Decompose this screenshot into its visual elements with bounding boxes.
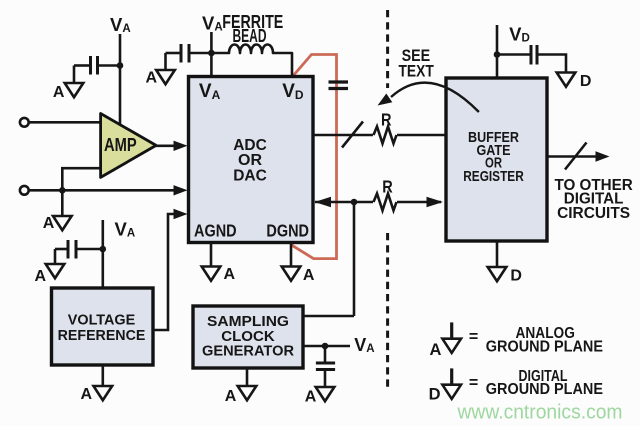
svg-text:A: A [305, 389, 317, 406]
svg-text:A: A [303, 267, 315, 284]
svg-text:A: A [224, 266, 236, 283]
svg-text:AMP: AMP [104, 135, 137, 155]
svg-text:A: A [146, 70, 158, 87]
svg-text:GENERATOR: GENERATOR [202, 344, 295, 360]
svg-text:A: A [225, 388, 237, 405]
svg-text:REFERENCE: REFERENCE [58, 328, 146, 344]
svg-text:D: D [580, 73, 592, 90]
svg-text:TEXT: TEXT [399, 62, 435, 81]
svg-text:A: A [81, 386, 93, 403]
svg-text:A: A [43, 215, 55, 232]
svg-text:GROUND PLANE: GROUND PLANE [486, 381, 603, 398]
svg-text:R: R [382, 177, 393, 197]
svg-text:GROUND PLANE: GROUND PLANE [486, 339, 603, 356]
svg-text:CLOCK: CLOCK [221, 329, 275, 345]
svg-text:AGND: AGND [194, 221, 237, 241]
svg-text:OR: OR [238, 152, 262, 169]
svg-text:REGISTER: REGISTER [463, 168, 524, 185]
svg-text:A: A [430, 341, 442, 359]
svg-text:VOLTAGE: VOLTAGE [68, 313, 136, 329]
svg-text:BEAD: BEAD [233, 26, 267, 46]
svg-text:D: D [510, 268, 522, 285]
svg-text:A: A [35, 268, 47, 285]
svg-text:CIRCUITS: CIRCUITS [557, 205, 630, 222]
svg-text:A: A [53, 84, 65, 101]
svg-text:=: = [469, 329, 478, 346]
svg-text:www.cntronics.com: www.cntronics.com [457, 402, 623, 424]
svg-text:DGND: DGND [266, 221, 309, 241]
svg-text:SAMPLING: SAMPLING [207, 314, 289, 330]
svg-text:R: R [381, 110, 392, 130]
svg-text:=: = [469, 374, 478, 391]
svg-text:DAC: DAC [233, 167, 267, 184]
svg-text:D: D [429, 386, 441, 404]
